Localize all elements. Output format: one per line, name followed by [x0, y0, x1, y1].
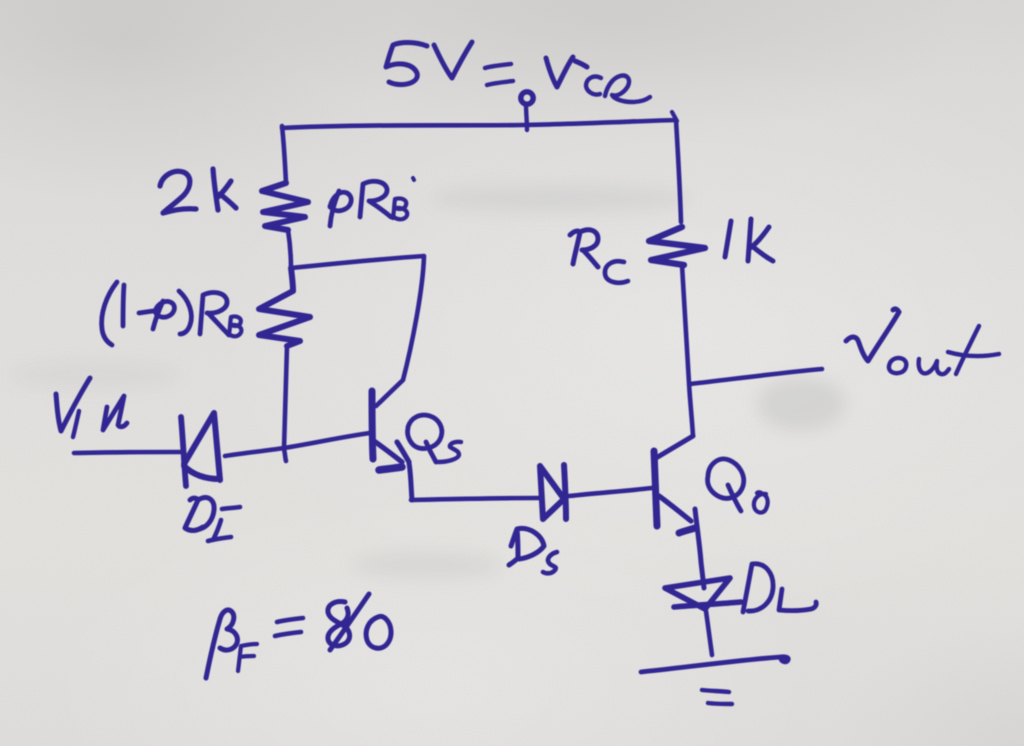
label: (1-rho) RB — [102, 282, 242, 345]
wire: DI to QS base — [225, 433, 370, 456]
faint smudge band mid right — [352, 551, 502, 579]
faint smudge left edge mid — [10, 360, 180, 390]
transistor QO collector diagonal — [656, 436, 693, 458]
wire: rho RB bottom to junction — [288, 230, 291, 268]
wire: VCC rail left corner down to rho RB — [282, 126, 286, 183]
wire: QO emitter drop to DL — [695, 509, 704, 588]
wire: VCC tap tick — [526, 104, 527, 130]
wire: VCC rail right drop to RC — [676, 120, 681, 222]
wire: QS emitter to DS — [411, 498, 540, 500]
resistor RC (1k) — [649, 227, 705, 265]
wire: VCC top rail — [282, 120, 676, 128]
faint smudge below Vout wire — [757, 377, 845, 431]
label: DI — [185, 498, 240, 541]
wire: (1-rho)RB bottom to DI node — [284, 346, 287, 461]
resistor (1-rho) RB — [259, 268, 310, 346]
label: rho RB — [330, 178, 414, 226]
ground — [641, 657, 788, 704]
label: Vout — [846, 309, 999, 374]
transistor QS base bar — [372, 391, 373, 459]
label: 1k — [725, 219, 773, 261]
label: DL — [743, 564, 816, 612]
wire: junction to QS collector branch — [291, 256, 424, 406]
resistor rho RB (2k) — [262, 183, 308, 230]
label: 5V = VCC — [386, 42, 650, 102]
label: betaF = 80 — [206, 594, 391, 678]
wire: DL to ground — [706, 611, 712, 655]
label: QO — [708, 459, 768, 513]
wire: corner tick at VCC rail right end — [672, 112, 677, 121]
diode DI — [181, 413, 220, 486]
label: QS — [408, 415, 461, 462]
wire: Vout branch — [690, 369, 822, 384]
wire: RC bottom to collector node — [682, 265, 693, 436]
diode DL — [665, 578, 741, 609]
label: RC — [570, 230, 628, 283]
transistor QO base bar — [654, 451, 657, 526]
node: VCC tap circle — [521, 92, 533, 104]
label: 2k — [160, 169, 236, 213]
faint pencil smudge right of rho RB — [432, 186, 692, 212]
transistor QS emitter with arrowhead — [374, 441, 409, 462]
label: DS — [509, 528, 557, 573]
diode DS — [540, 465, 566, 519]
wire: DS to QO base — [569, 488, 652, 496]
transistor QO emitter with arrowhead — [659, 496, 691, 521]
label: VIN — [56, 378, 127, 437]
wire: VIN input lead — [74, 452, 183, 453]
wire: QS emitter drop — [409, 463, 412, 500]
